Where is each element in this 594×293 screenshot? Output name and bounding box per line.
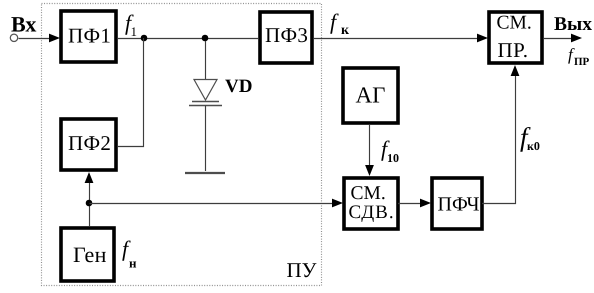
block ПФЧ	[432, 178, 482, 229]
dashed box ПУ	[42, 4, 322, 286]
label fк	[330, 9, 350, 38]
node varicap junction	[202, 35, 209, 42]
label fн	[122, 236, 137, 271]
label fПР	[568, 45, 590, 68]
label f10	[381, 136, 399, 165]
block ПФ3	[260, 12, 312, 63]
wire input to ПФ1	[19, 34, 61, 43]
svg-text:ПФ3: ПФ3	[265, 23, 308, 47]
block АГ	[343, 68, 398, 123]
block Ген	[61, 228, 114, 281]
block ПФ2	[61, 119, 116, 170]
svg-text:Ген: Ген	[73, 242, 107, 267]
wire ПФЧ to СМ.ПР.	[482, 65, 519, 204]
label fк0	[520, 122, 540, 153]
svg-text:к0: к0	[527, 139, 540, 153]
wire Ген to ПФ2	[85, 172, 94, 226]
svg-text:АГ: АГ	[356, 83, 386, 108]
wire ПФ2 feedback to f1 node	[118, 38, 144, 147]
label f1	[125, 10, 137, 39]
svg-text:СМ.: СМ.	[351, 183, 386, 204]
varicap VD	[185, 41, 225, 173]
svg-text:Вых: Вых	[554, 14, 592, 35]
block СМ.ПР.	[489, 12, 542, 63]
svg-text:ПР.: ПР.	[498, 38, 529, 62]
wire АГ to СМ.СДВ.	[365, 125, 374, 176]
block ПФ1	[61, 11, 116, 62]
svg-text:10: 10	[387, 151, 399, 165]
wire ПФ3 to СМ.ПР.	[314, 34, 488, 43]
svg-text:ПУ: ПУ	[287, 258, 317, 282]
node Ген junction	[86, 200, 93, 207]
wire СМ.СДВ. to ПФЧ	[398, 199, 431, 208]
svg-text:ПФЧ: ПФЧ	[438, 194, 480, 216]
svg-text:СДВ.: СДВ.	[349, 202, 395, 223]
svg-text:ПФ2: ПФ2	[68, 131, 111, 155]
svg-text:ПР: ПР	[574, 56, 590, 68]
block СМ.СДВ.	[344, 178, 398, 229]
svg-text:VD: VD	[225, 76, 252, 97]
wire Ген node to СМ.СДВ.	[90, 199, 344, 208]
svg-text:Вх: Вх	[11, 12, 36, 37]
svg-text:ПФ1: ПФ1	[68, 24, 111, 48]
svg-text:н: н	[129, 256, 137, 271]
node f1 junction	[141, 35, 148, 42]
svg-text:к: к	[341, 23, 350, 38]
wire СМ.ПР. output Вых	[544, 34, 582, 43]
svg-text:1: 1	[131, 24, 138, 39]
wire ПФ1 to ПФ3	[118, 38, 258, 40]
input terminal Вх	[10, 34, 17, 41]
svg-text:СМ.: СМ.	[497, 13, 532, 34]
